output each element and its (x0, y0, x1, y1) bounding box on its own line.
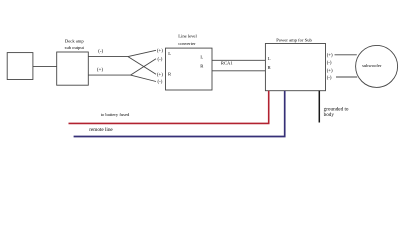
svg-text:L: L (268, 56, 271, 61)
svg-text:converter: converter (178, 41, 196, 46)
power amp box (265, 44, 325, 91)
deck amp box (57, 52, 89, 85)
svg-text:subwoofer: subwoofer (362, 63, 382, 68)
wire deck (-) to converter input 1 (128, 50, 156, 56)
svg-text:Deck amp: Deck amp (65, 38, 84, 43)
remote wire (blue) (74, 91, 285, 137)
svg-text:(-): (-) (158, 58, 163, 63)
svg-text:sub output: sub output (65, 45, 85, 50)
wire amp output (-) to subwoofer (336, 76, 357, 78)
svg-text:L: L (200, 55, 203, 60)
ground wire (318, 91, 320, 123)
subwoofer circle (356, 45, 398, 87)
wire deck (+) to converter input 4 (131, 75, 157, 81)
label: Line level converter (178, 34, 197, 47)
wire amp output (+) to subwoofer (335, 54, 357, 56)
line level converter box (166, 48, 213, 90)
wire deck (-) output (88, 56, 128, 58)
svg-text:L: L (168, 51, 171, 56)
svg-text:to battery fused: to battery fused (101, 112, 130, 117)
power wire (red, to battery) (69, 91, 269, 124)
svg-text:(-): (-) (158, 80, 163, 85)
svg-text:(-): (-) (327, 61, 332, 66)
wire RCA right channel (212, 70, 265, 72)
svg-text:Line level: Line level (178, 34, 197, 39)
wire deck (+) output (88, 74, 130, 76)
wire head unit to deck amp (33, 65, 57, 67)
svg-text:(+): (+) (157, 49, 163, 54)
svg-text:(+): (+) (157, 73, 163, 78)
svg-text:body: body (324, 112, 335, 118)
svg-text:RCA1: RCA1 (221, 61, 233, 66)
svg-text:(-): (-) (327, 76, 332, 81)
wire RCA left channel (212, 59, 265, 61)
svg-text:(+): (+) (327, 54, 333, 59)
wire deck (-) to converter input 3 (crossing) (128, 57, 156, 75)
svg-text:(+): (+) (327, 69, 333, 74)
labels: converter speaker-level inputs (157, 49, 163, 85)
labels: amp speaker outputs (327, 54, 333, 82)
label: Deck amp sub output (65, 38, 85, 49)
wire deck (+) to converter input 2 (crossing) (131, 59, 157, 75)
head unit box (7, 53, 33, 80)
svg-text:(-): (-) (98, 50, 103, 55)
svg-text:Power amp for Sub: Power amp for Sub (276, 37, 312, 42)
svg-text:(+): (+) (97, 68, 103, 73)
svg-text:remote line: remote line (89, 127, 113, 133)
